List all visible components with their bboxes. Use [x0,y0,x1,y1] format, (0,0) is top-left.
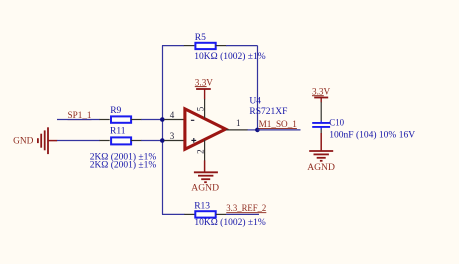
svg-text:C10: C10 [329,119,344,129]
pin: R11 pin 1 [100,140,110,142]
svg-text:AGND: AGND [307,162,335,173]
wire: R9 to node A [141,119,162,121]
wire: right vertical feedback down to output node [257,46,259,130]
pin: R9 pin 1 [100,119,110,121]
pin U1.5 (V+) [204,99,206,118]
svg-text:U4: U4 [249,97,261,107]
node B junction [160,138,165,143]
pin: R5 pin 1 [184,45,195,47]
ground AGND symbol (left) [194,172,218,182]
capacitor C10 plates [312,121,330,130]
svg-text:3: 3 [170,131,175,141]
resistor R9 [111,116,131,122]
resistor R5 [195,43,215,49]
3.3V stem (right) [320,98,322,103]
node A junction [160,117,165,122]
pin: R11 pin 2 [131,140,142,142]
resistor R11 [111,137,131,144]
wire: GND to R11 [57,140,100,142]
wire: output stub to net label [257,129,300,131]
svg-text:GND: GND [13,136,34,146]
3.3V stem [204,89,206,99]
svg-text:RS721XF: RS721XF [249,107,287,117]
ground symbol (earth, pointing left) [38,127,57,154]
3.3V bar [196,88,211,90]
AGND stem (right) [320,133,322,151]
wire: top horizontal, left of R5 [162,45,184,47]
svg-text:2KΩ (2001) ±1%: 2KΩ (2001) ±1% [90,159,157,170]
svg-text:10KΩ (1002) ±1%: 10KΩ (1002) ±1% [194,217,265,228]
wire: top horizontal, right of R5 [226,45,258,47]
3.3V bar (right) [314,97,328,99]
op-amp plus sign [191,138,196,143]
svg-text:SP1_1: SP1_1 [68,110,92,120]
svg-text:1: 1 [236,118,241,128]
svg-text:4: 4 [170,110,175,120]
svg-text:AGND: AGND [191,182,219,193]
op-amp minus sign [191,119,194,121]
pin C10.1 [320,102,322,121]
svg-text:100nF (104) 10% 16V: 100nF (104) 10% 16V [329,129,415,140]
pin: R13 pin 1 [184,213,194,215]
pin U1.3 (non-inverting input) [164,140,184,142]
ground AGND symbol (right) [309,151,333,161]
pin U1.2 (V-) [204,140,206,161]
svg-text:3.3V: 3.3V [312,86,330,96]
pin U1.1 (output) [226,129,248,131]
svg-text:3.3_REF_2: 3.3_REF_2 [226,203,266,213]
resistor R13 [195,211,215,217]
wire: R13 to net label stub [226,213,259,215]
svg-text:3.3V: 3.3V [195,77,213,87]
svg-text:R13: R13 [194,201,210,211]
wire: node B down to R13 row handled by bus; horizontal to R13 [162,213,185,215]
wire: left vertical bus from R5 row down to R13 row [162,46,164,215]
node C junction (output) [255,128,260,133]
pin: R5 pin 2 [216,45,227,47]
wire: SP1_1 to R9 [57,119,100,121]
svg-text:2: 2 [195,149,205,154]
svg-text:5: 5 [195,106,205,111]
svg-text:R5: R5 [195,33,206,43]
wire: output to node C [248,129,258,131]
svg-text:R11: R11 [110,127,126,137]
AGND stem (left) [204,160,206,172]
svg-text:10KΩ (1002) ±1%: 10KΩ (1002) ±1% [194,51,265,62]
svg-text:M1_SO_1: M1_SO_1 [259,119,298,129]
pin U1.4 (inverting input) [164,119,184,121]
pin: R9 pin 2 [131,119,142,121]
op-amp U4 triangle [185,109,226,149]
svg-text:R9: R9 [110,106,121,116]
pin C10.2 [320,129,322,133]
pin: R13 pin 2 [216,213,226,215]
wire: R11 to node B [141,140,162,142]
